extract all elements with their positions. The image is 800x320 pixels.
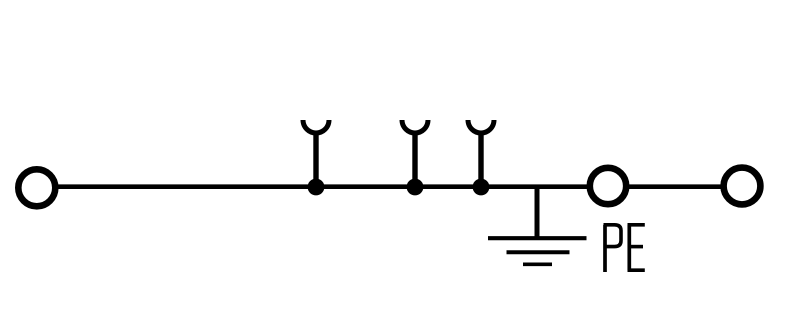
ground bar top <box>488 236 587 240</box>
ground bar bottom <box>523 262 552 266</box>
tap stem 1 <box>313 133 318 187</box>
label PE <box>604 225 645 272</box>
node junction 2 <box>407 179 424 196</box>
node junction 3 <box>473 179 490 196</box>
wire to right terminal <box>627 184 723 189</box>
ground bar middle <box>507 250 570 254</box>
tap stem 3 <box>478 133 483 187</box>
tap stem 2 <box>412 133 417 187</box>
tap arc 3 <box>468 120 494 133</box>
terminal circle right <box>724 168 761 205</box>
tap arc 2 <box>402 120 428 133</box>
tap arc 1 <box>303 120 329 133</box>
terminal circle left <box>18 169 55 206</box>
wire ground stem <box>535 187 540 239</box>
node junction 1 <box>308 179 325 196</box>
wire main horizontal <box>55 184 589 189</box>
terminal circle middle (PE) <box>590 168 626 204</box>
